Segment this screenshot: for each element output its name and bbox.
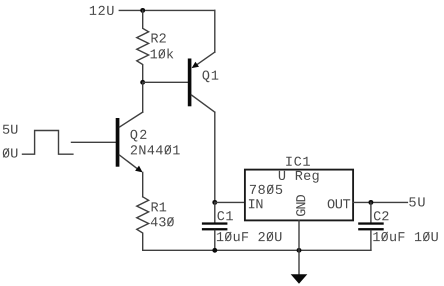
net 5V input label — [3, 125, 18, 134]
regulator IC1 box — [245, 170, 353, 221]
wire C1 top lead — [214, 202, 216, 222]
pin IN — [249, 199, 263, 208]
wire C2 bottom lead — [370, 230, 372, 250]
net 0V input label — [3, 148, 18, 157]
label C1 — [218, 211, 233, 220]
label R1 — [152, 202, 167, 211]
node base junction — [140, 80, 145, 85]
wire Q1 base — [143, 81, 188, 83]
pulse waveform symbol — [23, 131, 73, 155]
transistor Q2 — [116, 112, 143, 172]
wire C2 top lead — [370, 202, 372, 222]
resistor R2 — [137, 10, 149, 82]
wire Q1 emitter feed — [214, 10, 216, 52]
pin OUT — [328, 199, 351, 208]
wire Q1 collector down — [214, 112, 216, 202]
net 5V output label — [409, 197, 424, 206]
resistor R1 — [137, 197, 149, 251]
label 7805 — [250, 185, 282, 194]
junction 12V/R2 — [140, 8, 145, 13]
wire ground rail — [143, 249, 371, 251]
ground — [291, 274, 308, 284]
value 2N4401 — [131, 145, 180, 154]
capacitor C2 — [358, 222, 384, 230]
junction OUT/C2 — [368, 200, 373, 205]
net 12V label — [90, 6, 114, 15]
junction C1/rail — [212, 248, 217, 253]
wire OUT to 5V — [353, 201, 407, 203]
capacitor C1 — [202, 222, 228, 230]
wire 12V rail — [119, 9, 215, 11]
label V Reg — [279, 171, 319, 183]
wire Q2 base — [72, 141, 116, 143]
value 10k — [151, 49, 174, 59]
wire Q2 emitter to R1 — [142, 172, 144, 196]
wire C1 bottom lead — [214, 230, 216, 250]
label R2 — [152, 33, 166, 42]
pin GND — [296, 195, 305, 216]
value 430 — [151, 217, 174, 226]
label IC1 — [286, 157, 310, 166]
label C2 — [374, 211, 389, 220]
label Q1 — [203, 71, 219, 83]
wire GND pin — [298, 220, 300, 274]
value 10uF 20V — [217, 232, 282, 241]
label Q2 — [131, 130, 147, 142]
value 10uF 10V — [373, 232, 438, 241]
junction GND pin/rail — [297, 248, 302, 253]
wire Q2 collector — [142, 82, 144, 112]
transistor Q1 — [188, 52, 215, 112]
wire to IN pin — [215, 201, 245, 203]
junction C1/IN — [212, 200, 217, 205]
